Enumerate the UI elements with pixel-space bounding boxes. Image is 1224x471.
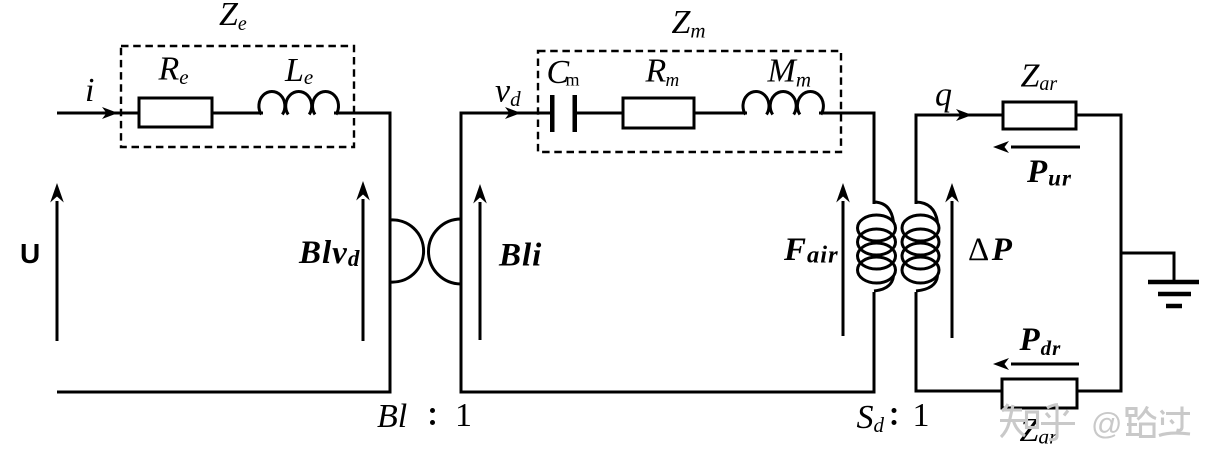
resistor Rm (623, 98, 694, 128)
current arrow q (956, 109, 972, 121)
wire Rm to Mm (694, 112, 747, 115)
svg-text:@: @ (1091, 406, 1122, 441)
dashed box Z_m (538, 51, 841, 152)
resistor Re (139, 98, 212, 127)
wire Le to T1 corner (334, 113, 390, 392)
watermark zhihu at luguo (1000, 404, 1190, 440)
current arrow v_d (505, 107, 521, 119)
wire T2 primary lower (873, 292, 876, 392)
svg-text:q: q (935, 77, 952, 114)
wire Z_ar to right corner (1076, 115, 1121, 391)
wire Cm to Rm (577, 112, 623, 115)
inductor Mm (743, 91, 823, 114)
ground (1148, 282, 1199, 306)
force arrow F_air (836, 183, 850, 336)
svg-text:Bli: Bli (498, 238, 542, 274)
voltage arrow Bli (473, 184, 487, 340)
voltage arrow Blv_d (356, 181, 370, 341)
wire Mm to T2 corner (819, 113, 874, 204)
svg-text:U: U (20, 238, 40, 269)
transformer T1 primary circle (390, 220, 424, 282)
current arrow i (102, 107, 118, 119)
label colon 2 (892, 408, 897, 425)
voltage arrow U (50, 183, 64, 341)
inductor Le (259, 91, 339, 114)
wire Re to Le (212, 112, 263, 115)
pressure arrow delta P (945, 183, 959, 338)
wire T2 secondary upper (916, 115, 1003, 204)
svg-text:1: 1 (913, 397, 930, 434)
ground branch wire (1121, 253, 1174, 281)
wire T1 secondary vertical (461, 113, 552, 392)
resistor Z_ar top (1003, 102, 1076, 129)
resistor Z_ar bottom (1002, 379, 1077, 408)
dashed box Z_e (121, 46, 354, 147)
wire bottom right (1077, 390, 1123, 393)
svg-text:1: 1 (455, 397, 472, 434)
transformer T1 secondary circle (429, 219, 462, 284)
capacitor Cm (550, 95, 577, 132)
wire secondary bottom (460, 391, 876, 394)
wire T2 secondary lower (916, 292, 1002, 391)
wire input top lead (57, 112, 139, 115)
power arrow P_dr (993, 358, 1079, 370)
power arrow P_ur (993, 141, 1080, 153)
transformer T2 secondary coil (902, 202, 939, 291)
transformer T2 primary coil (858, 202, 896, 291)
svg-text:Bl: Bl (377, 398, 407, 435)
wire primary bottom (57, 391, 392, 394)
label colon 1 (430, 408, 435, 425)
svg-text:i: i (85, 72, 94, 109)
